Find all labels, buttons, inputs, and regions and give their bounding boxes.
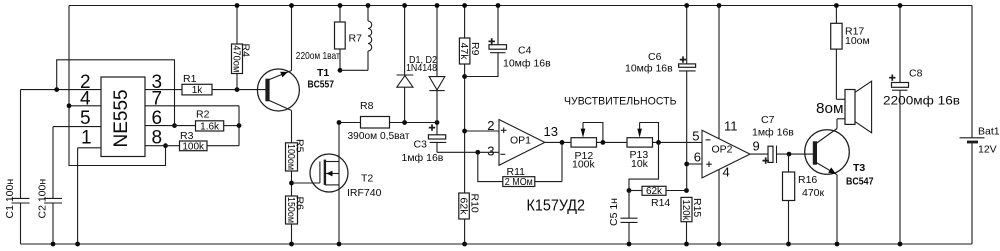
potentiometer P13 [627,123,659,170]
resistor R17 [831,6,870,100]
wire NE555 pin8 to R3 [145,145,180,147]
svg-text:T2: T2 [361,173,373,185]
svg-text:120k: 120k [680,200,691,222]
svg-text:T3: T3 [853,162,865,174]
node T3 base junction [787,152,792,157]
wire NE555 pin4 [69,105,101,107]
wire R2 right [224,125,239,127]
inductor L1 search coil [368,6,372,71]
node pin11 bus dot [717,3,722,8]
svg-text:1: 1 [81,128,92,149]
resistor R4 [231,6,252,90]
node R2 pin7 junction [237,123,242,128]
wire P13 node down to C5 R14 [629,142,659,190]
diode D1 [397,6,414,123]
plus input mark OP1 [501,128,507,134]
node R14 R15 junction [684,188,689,193]
svg-text:R10: R10 [468,194,480,213]
diode D2 [429,6,445,123]
op-amp OP1 [487,118,558,165]
transistor T1 [257,6,334,143]
node pin2 junction [54,87,59,92]
node R7 L1 junction [338,68,343,73]
wire NE555 pin7 [145,106,239,146]
battery Bat1 [960,126,1000,156]
resistor R14 [629,186,687,209]
svg-text:150ом: 150ом [285,197,296,223]
svg-text:100k: 100k [572,158,596,170]
svg-text:Bat1: Bat1 [978,126,1000,138]
svg-text:C7: C7 [761,114,775,126]
potentiometer P12 [571,123,603,171]
svg-text:1k: 1k [192,85,204,96]
svg-text:1мф 16в: 1мф 16в [752,127,794,139]
wire OP2 pin11 supply [718,6,720,139]
svg-text:5: 5 [80,108,91,129]
svg-text:390ом 0,5ват: 390ом 0,5ват [348,130,410,142]
node T2 drain junction [337,120,342,125]
svg-text:R16: R16 [798,174,817,186]
svg-text:R8: R8 [360,100,374,112]
node C5 ground dot [627,242,632,247]
node C3 junction [435,120,440,125]
resistor R7 [335,6,363,71]
node OP1 output [560,140,565,145]
wire R6 to ground [291,224,293,244]
capacitor C6 [625,6,696,191]
svg-text:2 МОм: 2 МОм [505,177,533,188]
node R16 ground dot [786,242,791,247]
node D2 bus dot [435,3,440,8]
node P12 wiper junction [601,140,606,145]
capacitor C1 [4,90,30,244]
node pin4 ground dot [717,242,722,247]
svg-text:62k: 62k [457,198,468,216]
wire pin2 to pin6 link [57,60,175,126]
transistor T3 [805,119,874,244]
wire NE555 pin6 to R2 [145,125,196,127]
node T2 source ground dot [337,242,342,247]
node C4 junction [462,74,467,79]
wire R1 to T1 base [212,89,266,91]
node R17 bus dot [834,3,839,8]
wire supply drop to pin4 and pin8 [69,6,166,166]
svg-text:4: 4 [723,165,730,180]
wire NE555 pin3 to R1 [145,89,182,91]
svg-text:R2: R2 [196,109,210,121]
node OP2 pin6 junction [684,162,689,167]
wire R3 right [207,145,239,147]
node D1 bus dot [402,3,407,8]
wire R5 to R6 [291,171,293,196]
node pin3 R11 junction [475,150,480,155]
wire NE555 pin2 to left [21,89,102,91]
svg-text:C6: C6 [648,51,662,63]
resistor R15 [680,197,703,244]
node R1 R4 junction [235,87,240,92]
svg-text:4: 4 [80,88,91,109]
svg-text:К157УД2: К157УД2 [527,198,586,215]
capacitor C2 [37,127,63,244]
node C6 bus dot [684,3,689,8]
node C8 ground dot [898,242,903,247]
svg-text:9: 9 [753,139,760,154]
svg-text:100ом: 100ом [285,144,296,170]
svg-text:C8: C8 [909,68,923,80]
node P13 wiper junction [656,140,661,145]
wire P13 to OP2 pin5 [653,141,703,143]
svg-text:C3: C3 [414,139,428,151]
svg-text:10k: 10k [631,158,649,170]
resistor R6 [285,196,305,224]
speaker LS1 [836,81,871,133]
wire R8 to diodes and C3 [390,122,438,124]
capacitor C5 [608,191,638,245]
svg-text:R9: R9 [469,42,481,56]
node R7 bus dot [338,3,343,8]
node D1 junction [402,120,407,125]
node R4 top bus dot [235,3,240,8]
svg-text:T1: T1 [317,67,329,79]
node C8 bus dot [898,3,903,8]
node pin4 junction [67,103,72,108]
wire P12 to P13 [597,141,628,143]
svg-text:11: 11 [724,119,738,134]
wire right edge to battery [971,6,973,138]
svg-text:OP1: OP1 [510,135,531,147]
svg-text:C4: C4 [518,45,532,57]
wire R7 to coil [340,69,368,71]
node pin2 junction [462,129,467,134]
resistor R2 [196,109,224,133]
svg-text:2: 2 [487,118,494,133]
wire NE555 pin1 to ground [78,148,101,244]
svg-text:10ом: 10ом [845,35,870,47]
svg-text:12V: 12V [978,144,997,156]
node coil bus dot [366,3,371,8]
node T1 emitter bus dot [289,3,294,8]
svg-text:2200мф 16в: 2200мф 16в [883,96,960,108]
svg-text:C5 1н: C5 1н [608,198,620,226]
svg-text:220ом 1ват: 220ом 1ват [296,50,340,62]
capacitor C4 [465,6,552,77]
svg-text:C1 100н: C1 100н [4,179,16,219]
capacitor C3 [402,123,447,165]
node C4 bus dot [496,3,501,8]
IC NE555 [80,72,162,157]
svg-text:5: 5 [692,129,699,144]
resistor R1 [182,73,212,96]
wire gate to T2 [292,182,320,184]
svg-text:62k: 62k [646,186,663,197]
wire battery minus to bottom bus [971,142,973,244]
wire op-amp pin3 input [437,151,499,153]
svg-text:13: 13 [544,124,558,139]
svg-text:3: 3 [487,144,494,159]
svg-text:10мф 16в: 10мф 16в [503,58,551,70]
wire OP2 output to C7 [750,153,768,155]
svg-text:BC547: BC547 [846,175,874,187]
node T2 gate junction [289,181,294,186]
svg-text:100k: 100k [182,141,205,152]
node T3 emitter ground dot [835,242,840,247]
wire bottom ground bus [21,243,973,245]
resistor R10 [457,193,480,244]
wire drain node to R8 [340,122,361,124]
node pin1 ground dot [75,242,80,247]
svg-text:R15: R15 [691,198,703,217]
node C2 ground dot [51,242,56,247]
wire top supply bus [69,5,972,7]
wire NE555 pin5 [53,126,101,128]
node R10 ground dot [462,242,467,247]
resistor R3 [180,130,208,152]
resistor R16 [783,154,825,244]
op-amp OP2 [692,119,759,180]
wire OP2 pin4 ground [718,170,720,245]
node R15 ground dot [684,242,689,247]
minus input mark OP1 [500,153,505,155]
svg-text:R1: R1 [183,73,197,85]
svg-text:1мф 16в: 1мф 16в [402,152,444,164]
minus input mark OP2 [706,139,711,141]
wire op-amp pin2 input [465,130,499,132]
resistor R8 [360,100,390,128]
svg-text:C2 100н: C2 100н [37,179,49,219]
svg-text:8ом: 8ом [816,100,844,117]
transistor T2 [310,123,382,245]
wire OP1 output [545,141,571,143]
feedback resistor R11 [478,142,562,188]
svg-text:R3: R3 [180,130,194,142]
node pin6 junction [172,123,177,128]
svg-text:470ом: 470ом [231,45,242,72]
capacitor C7 [752,114,814,164]
svg-text:ЧУВСТВИТЕЛЬНОСТЬ: ЧУВСТВИТЕЛЬНОСТЬ [564,95,677,107]
svg-text:47k: 47k [458,43,469,61]
node R9 bus dot [462,3,467,8]
svg-text:NE555: NE555 [111,89,132,147]
capacitor C8 [883,6,960,245]
svg-text:OP2: OP2 [712,144,733,156]
node C5 R14 junction [627,188,632,193]
svg-text:R14: R14 [651,197,670,209]
node pin8 junction [163,143,168,148]
svg-text:1.6k: 1.6k [200,122,220,133]
plus input mark OP2 [706,161,712,167]
resistor R5 [285,139,305,171]
resistor R9 [458,6,481,194]
wire OP2 pin6 input [687,163,702,165]
node R6 ground dot [289,242,294,247]
svg-text:6: 6 [694,150,701,165]
svg-text:IRF740: IRF740 [347,187,382,199]
svg-text:R7: R7 [349,33,363,45]
svg-text:1N4148: 1N4148 [406,62,437,74]
svg-text:10мф 16в: 10мф 16в [625,63,673,75]
svg-text:470к: 470к [802,187,825,199]
svg-text:BC557: BC557 [308,79,335,91]
